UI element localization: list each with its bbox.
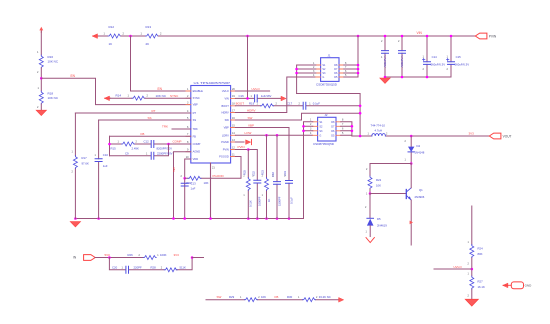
offpage connector GND	[503, 282, 524, 289]
svg-text:VIN: VIN	[224, 96, 228, 100]
svg-text:EN: EN	[71, 74, 76, 78]
svg-text:1: 1	[128, 95, 130, 98]
svg-text:2: 2	[381, 40, 383, 43]
svg-text:CSD87350Q5D: CSD87350Q5D	[313, 142, 334, 146]
svg-text:UVLO: UVLO	[252, 87, 261, 91]
svg-text:FB: FB	[275, 295, 279, 299]
wire J2 drains to SW line	[341, 122, 352, 136]
svg-text:13: 13	[232, 139, 235, 142]
wire VIN pin19	[235, 97, 283, 99]
svg-text:FB: FB	[141, 132, 145, 136]
svg-text:1: 1	[251, 95, 253, 98]
wire EN net to pin3	[41, 78, 191, 104]
svg-text:2: 2	[366, 168, 368, 171]
capacitor C12	[151, 141, 154, 148]
svg-text:1: 1	[240, 296, 242, 299]
svg-text:10K NC: 10K NC	[48, 60, 59, 64]
svg-text:PVIN: PVIN	[238, 145, 245, 149]
capacitor C19	[286, 181, 293, 184]
J1 pin stubs	[316, 65, 344, 77]
svg-text:1000PF: 1000PF	[258, 196, 262, 206]
wire R18 to ground	[40, 104, 42, 110]
svg-text:R29: R29	[229, 295, 235, 299]
node COMP junction	[167, 143, 170, 146]
svg-text:2: 2	[161, 266, 163, 269]
svg-text:8: 8	[345, 62, 347, 65]
svg-text:5V0: 5V0	[172, 167, 176, 172]
svg-text:4.7uH: 4.7uH	[375, 129, 382, 133]
svg-text:FB: FB	[193, 134, 197, 138]
svg-text:1: 1	[141, 32, 143, 35]
svg-text:R16: R16	[48, 55, 54, 59]
svg-text:SYNC: SYNC	[193, 96, 200, 100]
svg-text:G: G	[319, 134, 321, 137]
svg-text:5: 5	[187, 117, 189, 120]
J1 pin names	[322, 64, 326, 79]
svg-text:2: 2	[139, 254, 141, 257]
J2 pin numbers	[310, 119, 344, 136]
wire LDRV line	[235, 134, 312, 136]
svg-text:3: 3	[313, 70, 315, 73]
wire R22 to D5	[369, 194, 371, 218]
svg-text:10K NC: 10K NC	[48, 96, 59, 100]
svg-text:8200PF/50V: 8200PF/50V	[157, 146, 173, 150]
svg-text:C16: C16	[239, 94, 245, 98]
wire SS branch down	[98, 120, 100, 219]
wire output line	[352, 135, 489, 137]
resistor R24	[470, 245, 474, 258]
svg-text:G: G	[322, 76, 324, 79]
svg-text:C14: C14	[432, 55, 438, 59]
svg-text:2: 2	[72, 171, 74, 174]
wire AGND down	[174, 152, 191, 219]
node R12/R13 junction	[129, 35, 132, 38]
wire J1 drains to VIN	[344, 36, 358, 77]
svg-text:1: 1	[366, 193, 368, 196]
svg-text:1: 1	[468, 273, 470, 276]
capacitor C17	[303, 102, 306, 109]
offpage arrow R12 left	[93, 34, 100, 38]
svg-text:1: 1	[72, 151, 74, 154]
svg-text:VDD: VDD	[193, 157, 199, 161]
offpage connector IN	[84, 255, 96, 261]
svg-text:1: 1	[381, 56, 383, 59]
svg-text:1: 1	[447, 56, 449, 59]
offpage arrow PGND	[246, 139, 252, 144]
svg-text:LDRV: LDRV	[222, 133, 229, 137]
svg-text:2: 2	[181, 175, 183, 178]
U1 bottom pad stub	[210, 163, 212, 219]
wire cap bank ground bus	[385, 76, 451, 78]
svg-text:4.7uF/50V: 4.7uF/50V	[383, 55, 387, 68]
svg-text:3V3: 3V3	[469, 132, 475, 136]
svg-text:Q1: Q1	[419, 188, 423, 192]
svg-text:17: 17	[232, 109, 235, 112]
svg-text:14: 14	[232, 132, 235, 135]
svg-text:1500PF: 1500PF	[277, 196, 281, 206]
svg-text:SW: SW	[217, 295, 222, 299]
svg-text:ENABLE: ENABLE	[193, 89, 204, 93]
svg-text:BOOT: BOOT	[236, 101, 245, 105]
capacitor C13	[181, 183, 188, 186]
svg-text:C15: C15	[456, 55, 462, 59]
U1 right pin numbers	[232, 88, 235, 157]
svg-text:SW: SW	[225, 118, 230, 122]
wire ground bus	[75, 218, 303, 220]
svg-text:SS: SS	[148, 116, 152, 120]
svg-text:PVIN: PVIN	[223, 148, 229, 152]
svg-text:R22: R22	[376, 178, 382, 182]
svg-text:PGOOD: PGOOD	[213, 174, 225, 178]
svg-text:C17: C17	[287, 101, 293, 105]
svg-text:TRK: TRK	[193, 127, 198, 131]
wire PVIN pin12	[235, 150, 257, 219]
resistor R29	[244, 298, 257, 302]
svg-text:C9: C9	[125, 151, 129, 155]
svg-text:2: 2	[405, 140, 407, 143]
svg-text:UVLO: UVLO	[454, 265, 463, 269]
svg-text:7: 7	[187, 133, 189, 136]
wire RT branch down	[74, 113, 76, 219]
svg-text:97.6K: 97.6K	[82, 161, 89, 165]
svg-text:10K: 10K	[261, 295, 266, 299]
svg-text:J1: J1	[328, 53, 331, 57]
svg-text:220PF: 220PF	[134, 265, 143, 269]
J2 pin names	[319, 121, 323, 138]
wire VBP pin15	[235, 128, 289, 219]
ground D5	[366, 238, 374, 243]
svg-text:BOOT: BOOT	[221, 104, 229, 108]
svg-text:R15: R15	[111, 146, 117, 150]
svg-text:R26: R26	[128, 253, 134, 257]
svg-text:3: 3	[187, 101, 189, 104]
svg-text:5: 5	[345, 74, 347, 77]
resistor R20	[188, 176, 201, 180]
svg-text:2: 2	[468, 263, 470, 266]
svg-text:EN: EN	[158, 87, 163, 91]
svg-text:15: 15	[232, 124, 235, 127]
svg-text:UVLO: UVLO	[222, 89, 229, 93]
svg-text:C22: C22	[252, 171, 256, 176]
svg-text:1: 1	[146, 152, 148, 155]
svg-text:R25: R25	[243, 170, 247, 175]
svg-text:4.7uF/50V: 4.7uF/50V	[400, 55, 404, 68]
ground R27	[465, 299, 478, 306]
svg-text:2: 2	[299, 102, 301, 105]
capacitor C14	[423, 36, 431, 77]
svg-text:C13: C13	[191, 181, 197, 185]
resistor R18	[39, 91, 43, 104]
svg-text:8: 8	[342, 119, 344, 122]
wire VIN rail	[159, 35, 476, 37]
svg-text:C20: C20	[112, 265, 118, 269]
svg-text:SYNC: SYNC	[170, 94, 179, 98]
svg-text:2: 2	[398, 40, 400, 43]
wire C9 row	[110, 144, 169, 156]
svg-text:80K: 80K	[478, 252, 483, 256]
resistor R12	[108, 34, 121, 38]
wire SW pin16	[235, 113, 360, 120]
svg-text:33.2K NC: 33.2K NC	[319, 295, 331, 299]
svg-text:R14: R14	[116, 94, 122, 98]
svg-text:4: 4	[313, 74, 315, 77]
svg-text:T44-774-10: T44-774-10	[371, 123, 386, 127]
resistor R23	[265, 135, 269, 218]
offpage connector PVIN	[475, 33, 487, 39]
svg-text:511K: 511K	[180, 265, 186, 269]
capacitor C8	[399, 36, 406, 77]
wire HDRV pin17	[235, 77, 315, 113]
svg-text:10: 10	[186, 156, 189, 159]
node J1 drain junction	[357, 35, 360, 38]
svg-text:CSD87350Q5D: CSD87350Q5D	[316, 82, 337, 86]
svg-text:D5: D5	[377, 217, 381, 221]
op-amp U1 box	[191, 86, 231, 164]
svg-text:1: 1	[309, 102, 311, 105]
node emitter mark	[410, 221, 413, 225]
svg-text:3V3: 3V3	[174, 253, 180, 257]
capacitor C9	[151, 152, 154, 159]
svg-text:VBP: VBP	[224, 126, 229, 130]
svg-text:COMP: COMP	[173, 140, 182, 144]
capacitor C10	[95, 159, 102, 162]
svg-text:C10: C10	[103, 153, 109, 157]
svg-text:IN: IN	[73, 256, 77, 260]
svg-text:10K NC: 10K NC	[156, 94, 167, 98]
offpage arrow bottom chain	[339, 298, 344, 302]
node VIN to pin19 junction	[246, 35, 249, 38]
offpage arrow SYNC	[105, 96, 111, 100]
U1 right pin names	[219, 89, 229, 159]
node VOUT junction D4	[410, 135, 413, 138]
capacitor C20	[126, 266, 129, 273]
power symbol top-left	[39, 27, 43, 33]
svg-text:1: 1	[118, 141, 120, 144]
resistor R22	[368, 176, 372, 218]
svg-text:11: 11	[232, 153, 235, 156]
svg-text:2: 2	[276, 102, 278, 105]
svg-text:1: 1	[37, 51, 39, 54]
svg-text:1: 1	[95, 154, 97, 157]
wire UVLO stub pin20	[235, 90, 269, 92]
svg-text:2: 2	[365, 206, 367, 209]
svg-text:7: 7	[345, 66, 347, 69]
svg-text:2: 2	[37, 71, 39, 74]
svg-text:2N3906: 2N3906	[415, 195, 425, 199]
svg-text:2: 2	[187, 95, 189, 98]
wire SS	[99, 119, 191, 121]
U1 right pin stubs	[231, 91, 236, 157]
U1 left pin names	[193, 89, 204, 161]
svg-text:COMP: COMP	[193, 142, 201, 146]
wire R16 to junction	[40, 68, 42, 91]
svg-text:12: 12	[232, 146, 235, 149]
wire lower branch down	[109, 258, 192, 270]
wire TRK stub	[172, 128, 191, 130]
wire PGND stub pin13	[235, 141, 244, 143]
svg-text:LOW: LOW	[245, 131, 252, 135]
svg-text:PGOOD: PGOOD	[219, 155, 229, 159]
svg-text:6: 6	[342, 128, 344, 131]
wire R20 row	[185, 157, 241, 179]
wire D4 to R22	[370, 164, 411, 177]
svg-text:TRK: TRK	[162, 125, 168, 129]
svg-text:0.1uF: 0.1uF	[313, 101, 320, 105]
svg-text:1: 1	[368, 133, 370, 136]
wire UVLO divider top	[471, 206, 473, 299]
svg-text:560uF/6.3V: 560uF/6.3V	[431, 62, 446, 66]
connector J2 box	[318, 117, 336, 141]
svg-text:1uF/16V: 1uF/16V	[261, 94, 272, 98]
node R26 junction	[191, 256, 194, 259]
wire J1 sources to SW	[297, 65, 316, 94]
svg-text:2: 2	[316, 296, 318, 299]
svg-text:C12: C12	[144, 140, 150, 144]
svg-text:VBP: VBP	[193, 103, 198, 107]
svg-text:R17: R17	[82, 156, 88, 160]
svg-text:1: 1	[313, 62, 315, 65]
svg-text:7: 7	[342, 123, 344, 126]
resistor R28	[164, 268, 177, 272]
svg-text:1: 1	[262, 195, 264, 197]
svg-text:1: 1	[38, 87, 40, 90]
svg-text:0.11K: 0.11K	[249, 200, 253, 207]
node base junction	[369, 192, 372, 195]
svg-text:1: 1	[405, 159, 407, 162]
svg-text:1K: 1K	[267, 199, 271, 202]
svg-text:2: 2	[147, 95, 149, 98]
svg-text:21: 21	[212, 167, 215, 170]
svg-text:C18: C18	[271, 172, 275, 177]
svg-text:1K: 1K	[109, 42, 113, 46]
capacitor C22	[254, 180, 261, 183]
ground cap bank	[380, 78, 390, 83]
svg-text:2: 2	[37, 106, 39, 109]
svg-text:1: 1	[157, 254, 159, 257]
ground main bus	[70, 222, 80, 227]
wire RT	[75, 112, 190, 114]
svg-text:J2: J2	[325, 113, 328, 117]
svg-text:4: 4	[310, 132, 312, 135]
wire collector up	[410, 164, 412, 188]
wire junction down to pin1	[131, 36, 191, 91]
svg-text:2: 2	[310, 123, 312, 126]
svg-text:2200PF/50V: 2200PF/50V	[157, 151, 173, 155]
svg-text:8: 8	[187, 141, 189, 144]
svg-text:VIN: VIN	[417, 31, 423, 35]
svg-text:R18: R18	[48, 91, 54, 95]
svg-text:1: 1	[257, 102, 259, 105]
wire R12 to R13	[121, 35, 146, 37]
svg-text:0.1uF: 0.1uF	[289, 197, 293, 204]
transistor Q1	[406, 188, 411, 200]
svg-text:2N4619: 2N4619	[377, 223, 387, 227]
svg-text:R27: R27	[478, 280, 484, 284]
svg-text:10K: 10K	[376, 184, 381, 188]
resistor R19	[261, 104, 274, 108]
svg-text:6: 6	[187, 126, 189, 129]
svg-text:2K: 2K	[146, 42, 150, 46]
svg-text:20: 20	[232, 88, 235, 91]
svg-text:3: 3	[310, 128, 312, 131]
svg-text:2: 2	[136, 141, 138, 144]
wire comp left edge	[109, 136, 111, 156]
ground below R18	[36, 110, 46, 115]
wire R26 stub right	[192, 257, 203, 259]
svg-text:2.49K: 2.49K	[132, 146, 139, 150]
svg-text:2: 2	[386, 133, 388, 136]
J1 pin numbers	[313, 62, 347, 77]
svg-text:SW: SW	[248, 116, 253, 120]
svg-text:1: 1	[104, 32, 106, 35]
wire IN to R26	[95, 257, 143, 259]
wire arrow to R14	[110, 97, 132, 99]
svg-text:6: 6	[345, 70, 347, 73]
svg-text:5: 5	[342, 132, 344, 135]
svg-text:4: 4	[187, 110, 189, 113]
wire emitter stub	[410, 200, 412, 245]
node EN junction	[40, 77, 43, 80]
svg-text:1: 1	[310, 119, 312, 122]
resistor R30	[303, 298, 316, 302]
wire COMP row	[110, 143, 191, 145]
wire FB	[110, 135, 191, 137]
svg-text:R23: R23	[261, 170, 265, 175]
resistor R15	[122, 142, 135, 146]
wire J2 sources to ground	[304, 122, 313, 219]
svg-text:U1 TPS40057PWP: U1 TPS40057PWP	[194, 81, 231, 85]
svg-text:16.1K: 16.1K	[478, 285, 485, 289]
svg-text:AGND: AGND	[193, 150, 201, 154]
resistor R13	[146, 34, 159, 38]
svg-text:VBP: VBP	[248, 123, 254, 127]
svg-text:2: 2	[313, 66, 315, 69]
svg-text:1: 1	[122, 266, 124, 269]
inductor L1	[372, 134, 386, 136]
resistor R16	[39, 55, 43, 68]
svg-text:VOUT: VOUT	[503, 134, 512, 138]
diode D5 zener	[367, 218, 374, 236]
node UVLO divider junction	[471, 268, 474, 271]
wire R16 top	[40, 31, 42, 55]
diode D4	[408, 136, 414, 164]
svg-text:R12: R12	[109, 25, 115, 29]
svg-text:2: 2	[447, 68, 449, 71]
resistor R17	[73, 156, 77, 169]
svg-text:2: 2	[258, 296, 260, 299]
capacitor C18	[274, 135, 281, 218]
svg-text:1: 1	[366, 231, 368, 234]
svg-text:R24: R24	[478, 247, 484, 251]
svg-text:2: 2	[160, 32, 162, 35]
svg-text:SS: SS	[193, 118, 197, 122]
capacitor C15	[447, 36, 455, 77]
svg-text:R13: R13	[146, 25, 152, 29]
svg-text:D4: D4	[417, 144, 421, 148]
svg-text:1N4148: 1N4148	[415, 151, 425, 155]
U1 left pin numbers	[186, 88, 189, 159]
svg-text:2: 2	[423, 68, 425, 71]
svg-text:2: 2	[468, 295, 470, 298]
svg-text:10K: 10K	[204, 181, 209, 185]
svg-text:R30: R30	[287, 295, 293, 299]
J2 pin stubs	[313, 122, 341, 136]
resistor R27	[470, 276, 474, 289]
wire VIN down to pin19	[247, 36, 249, 98]
svg-text:1uF: 1uF	[103, 164, 108, 168]
svg-text:PVIN: PVIN	[489, 34, 497, 38]
offpage connector VOUT	[489, 133, 501, 139]
